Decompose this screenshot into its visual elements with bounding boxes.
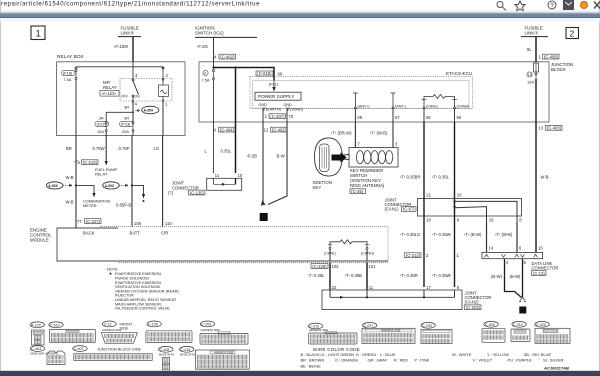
svg-text:RELAY: RELAY [95, 172, 108, 177]
svg-text:POWER SUPPLY: POWER SUPPLY [258, 94, 294, 99]
svg-text:56: 56 [457, 115, 462, 120]
CAN1 internal wire CANH through [454, 199, 456, 223]
svg-text:‹T› 0.35L: ‹T› 0.35L [308, 273, 326, 278]
svg-text:A-30X: A-30X [144, 109, 154, 113]
node: branch split below relay pin 4 [106, 111, 134, 122]
svg-text:BATT: BATT [130, 231, 141, 236]
wire DLC pin 5 to ground [522, 259, 524, 298]
net (CANL) terminal [423, 105, 438, 109]
svg-text:METER: METER [83, 203, 97, 208]
svg-text:C-213: C-213 [309, 325, 319, 329]
svg-text:13: 13 [528, 73, 532, 77]
svg-text:4: 4 [521, 308, 524, 313]
svg-text:C/R: C/R [161, 231, 168, 236]
svg-text:(B-W): (B-W) [510, 274, 522, 279]
svg-text:77: 77 [77, 219, 82, 224]
CAN1 internal wire CANL through [423, 199, 425, 223]
connector pinout C-235 [421, 322, 452, 343]
svg-text:58: 58 [357, 115, 362, 120]
svg-text:MADE WITH: MADE WITH [180, 353, 195, 357]
wire from fuse 13 down through junction block [535, 81, 537, 252]
svg-text:‹T› 0.35R: ‹T› 0.35R [400, 273, 418, 278]
page reference marker 4 [519, 307, 526, 314]
node: FL5 feed joins bus [132, 62, 134, 79]
svg-text:(CANL): (CANL) [426, 105, 438, 109]
key reminder switch label [350, 168, 385, 194]
connector pinout C-105 [146, 321, 192, 343]
svg-text:11: 11 [215, 173, 220, 178]
connector 12 (C-402) [264, 127, 288, 132]
svg-text:‹T› 0.35W: ‹T› 0.35W [432, 232, 451, 237]
svg-text:A-50X: A-50X [105, 184, 115, 188]
svg-text:LINK⑤: LINK⑤ [121, 31, 135, 36]
svg-text:3R: 3R [99, 116, 104, 121]
svg-text:BLOCK: BLOCK [551, 67, 566, 72]
svg-text:JUNCTION BLOCK SIDE: JUNCTION BLOCK SIDE [97, 347, 142, 352]
svg-text:B-W: B-W [277, 153, 285, 158]
svg-text:C-227: C-227 [364, 324, 374, 328]
svg-text:‹T› 0.35BR: ‹T› 0.35BR [400, 175, 420, 180]
svg-text:20: 20 [426, 218, 431, 223]
wire 0.75P below relay box [131, 136, 133, 227]
wire LG below relay box [162, 136, 164, 227]
connector 6 (C-213) on BR wire [74, 160, 98, 165]
ground GND (EARTH) [259, 103, 281, 111]
wire ANT+ to key ring antenna [354, 122, 356, 148]
wire CANL to C-213 [423, 222, 425, 287]
svg-text:OIL FEEDER CONTROL VALVE: OIL FEEDER CONTROL VALVE [115, 307, 170, 311]
svg-text:C-325: C-325 [536, 323, 546, 327]
svg-text:(C-402): (C-402) [272, 127, 287, 132]
svg-text:(C-226): (C-226) [312, 264, 327, 269]
ETACS pin 65 [424, 109, 431, 122]
node junction on 0.75P wire [131, 184, 133, 186]
wire CANH to CAN2 joint connector [366, 262, 368, 290]
svg-text:17: 17 [426, 285, 431, 290]
svg-text:110: 110 [165, 221, 172, 226]
svg-text:60: 60 [278, 72, 283, 77]
connector pinout C-408 [159, 346, 174, 369]
svg-text:O : ORANGE: O : ORANGE [335, 358, 359, 363]
svg-text:(F16): (F16) [63, 71, 73, 76]
connector 4 (C-404) [214, 127, 236, 132]
wire from ignition switch [213, 37, 215, 62]
svg-text:B : BLACK: B : BLACK [301, 352, 320, 357]
svg-text:C-610: C-610 [50, 323, 60, 327]
svg-text:‹T› 0.35L: ‹T› 0.35L [432, 175, 450, 180]
svg-text:15A: 15A [527, 80, 534, 85]
svg-text:HARNESS SIDE: HARNESS SIDE [381, 329, 401, 333]
antenna terminal ANT- [391, 93, 406, 109]
bottom window bar [0, 371, 600, 376]
svg-text:C-404: C-404 [31, 347, 41, 351]
connector pinout C-227 [362, 322, 415, 343]
svg-text:(F23): (F23) [121, 122, 131, 127]
wire 0.75W below relay box [105, 136, 107, 162]
arrow to fuel pump relay [105, 161, 108, 166]
svg-text:MADE WITH: MADE WITH [159, 353, 174, 357]
ECM internal CAN terminating resistor [328, 240, 369, 248]
ETACS-ECU dashed outline [250, 77, 473, 109]
branch wire to combination meter [76, 185, 96, 197]
wire CANL to CAN2 joint connector [329, 262, 331, 290]
connector oval A-30X [135, 106, 159, 114]
relay box outline [57, 54, 186, 136]
svg-text:‹F›2B: ‹F›2B [247, 153, 258, 158]
svg-text:‹T› (B-W): ‹T› (B-W) [464, 232, 482, 237]
svg-text:102: 102 [332, 264, 340, 269]
sheet number box 2 [566, 28, 579, 39]
svg-text:13: 13 [539, 126, 544, 131]
ETACS pin 56 [455, 109, 462, 122]
connector pinout A-12X [30, 322, 44, 345]
svg-text:(C-13): (C-13) [533, 271, 545, 276]
svg-text:(7): (7) [168, 190, 174, 195]
connector 4 (C-402) [214, 54, 236, 59]
svg-text:(C-67): (C-67) [403, 207, 415, 212]
svg-text:(ANT+): (ANT+) [358, 105, 370, 109]
svg-text:(C-213): (C-213) [83, 160, 98, 165]
svg-text:2: 2 [570, 29, 575, 39]
svg-text:‹T› (W-B): ‹T› (W-B) [370, 131, 388, 136]
svg-text:C-235: C-235 [422, 324, 432, 328]
svg-text:‹T› 0.35LG: ‹T› 0.35LG [400, 232, 420, 237]
MFI relay U1 dashed body [120, 79, 172, 102]
svg-text:8L: 8L [527, 47, 532, 52]
svg-text:(CANH): (CANH) [457, 105, 470, 109]
wire BR below relay box [75, 136, 77, 228]
svg-text:BACK: BACK [83, 231, 95, 236]
fusible link 1 label [521, 26, 548, 37]
connector oval junction to combination meter [46, 182, 72, 189]
wire from F22 to relay box edge [105, 132, 107, 136]
node: branch to joint connector pin 10 [234, 66, 236, 68]
wire from F16 down (BR) inside relay box [75, 80, 77, 136]
svg-text:C-310: C-310 [513, 323, 523, 327]
MFI relay label [100, 80, 119, 96]
svg-text:7.5A: 7.5A [202, 78, 210, 83]
joint connector (CAN1) body [418, 199, 522, 217]
svg-text:15A: 15A [97, 129, 104, 134]
svg-text:106: 106 [134, 221, 142, 226]
svg-text:‹T› 0.35W: ‹T› 0.35W [432, 273, 451, 278]
connector pinout C-416 junction block table [180, 346, 250, 369]
connector pinout C-404 [30, 346, 65, 365]
key reminder switch (ignition key ring antenna) coil [349, 148, 398, 168]
joint connector (7) body [207, 178, 242, 190]
ignition switch (IG1) label [195, 26, 257, 38]
data link connector body [482, 252, 543, 258]
svg-text:65: 65 [426, 115, 431, 120]
junction block outline [199, 62, 549, 122]
wire CANL down from ETACS pin 65 [423, 122, 425, 199]
svg-text:BR: BR [66, 146, 72, 151]
net (CANH) terminal [454, 105, 470, 109]
svg-text:10: 10 [457, 192, 462, 197]
relay contact switch [132, 79, 139, 101]
browser toolbar icons [497, 0, 600, 11]
svg-text:(C-407): (C-407) [270, 114, 285, 119]
node: IG1 branch to ETACS [212, 66, 214, 68]
svg-text:GND: GND [284, 103, 293, 107]
heavy wire IG1 branch to ETACS pin 60 [214, 68, 275, 81]
svg-text:HARNESS SIDE: HARNESS SIDE [214, 350, 234, 354]
svg-text:(C-203): (C-203) [466, 305, 481, 310]
svg-text:ACJ00217AB: ACJ00217AB [543, 365, 569, 370]
wire coil feed pin2 [162, 67, 164, 85]
junction block side pin strip [74, 354, 152, 361]
CAN1 internal bus to pin 19 [453, 206, 486, 223]
svg-text:OFF: OFF [121, 95, 128, 99]
svg-text:22: 22 [332, 285, 337, 290]
ETACS pin 58 [355, 109, 362, 122]
sheet number box 1 [31, 26, 45, 40]
wire DLC pin 4 to ground [505, 259, 522, 298]
wire coil pin 1 down (LG) [162, 102, 164, 136]
connector pinout C-305 [482, 321, 505, 342]
ECM net (CANL) [324, 247, 336, 261]
svg-text:3R: 3R [124, 116, 129, 121]
engine control module box [57, 226, 388, 262]
connector pinout C-213 [308, 323, 357, 344]
svg-text:CONNECTOR: CONNECTOR [532, 265, 559, 270]
connector pinout C-325 [535, 321, 570, 343]
connector 1 (C-408) [539, 54, 560, 59]
svg-text:17: 17 [261, 216, 267, 221]
svg-text:BR : BROWN: BR : BROWN [301, 358, 325, 363]
browser url text [1, 1, 260, 8]
svg-text:10: 10 [238, 173, 243, 178]
svg-text:(CAN1): (CAN1) [385, 207, 400, 212]
joint connector (CAN2) body [322, 290, 462, 310]
svg-text:BE : BEIGE: BE : BEIGE [301, 363, 322, 368]
svg-text:C-305: C-305 [485, 323, 495, 327]
svg-text:20A: 20A [122, 129, 129, 134]
svg-text:ON: ON [135, 95, 141, 99]
fuse (13) 15A in junction block [527, 63, 539, 85]
svg-text:57: 57 [395, 115, 400, 120]
svg-text:(SGND): (SGND) [290, 108, 303, 112]
note text block [107, 267, 179, 311]
ignition key symbol [315, 138, 350, 176]
svg-text:C-13: C-13 [104, 323, 112, 327]
svg-text:LG: LG [154, 146, 160, 151]
svg-text:(C-404): (C-404) [220, 127, 235, 132]
joint connector (7) label [168, 180, 205, 195]
svg-text:repair/article/61540/component: repair/article/61540/component/612/type/… [1, 1, 260, 8]
svg-text:1: 1 [36, 29, 41, 40]
svg-text:0.85P-B: 0.85P-B [116, 202, 131, 207]
connector pinout C-13 front side [101, 321, 137, 343]
svg-text:C-408: C-408 [160, 348, 170, 352]
svg-text:14: 14 [489, 245, 494, 250]
svg-text:SB : SKY BLUE: SB : SKY BLUE [524, 352, 552, 357]
node: grounds merge with arrow [261, 200, 264, 206]
connector pinout C-610 [49, 322, 96, 343]
connector oval junction on 0.75P wire [103, 182, 129, 189]
svg-text:70: 70 [289, 114, 294, 119]
antenna terminal ANT+ [353, 93, 369, 109]
heavy wire branch down to joint connector (7) pin 10 [235, 68, 237, 174]
junction block label [551, 62, 573, 72]
svg-text:0.35L: 0.35L [221, 148, 232, 153]
svg-text:7.5A: 7.5A [64, 77, 72, 82]
svg-text:W-B: W-B [66, 175, 74, 180]
svg-text:SI : SILVER: SI : SILVER [543, 358, 564, 363]
ETACS pin 2 (C-407) [263, 109, 286, 122]
wire CAN1 pin 8 to DLC pin 6 [516, 222, 518, 252]
svg-text:G : GREEN: G : GREEN [356, 352, 376, 357]
fuel pump relay label [95, 167, 118, 177]
svg-text:11: 11 [369, 285, 374, 290]
data link connector label [532, 261, 559, 276]
net (IG1) inside ETACS [269, 81, 279, 92]
wire below pin 4 [132, 101, 134, 122]
svg-text:GND: GND [259, 103, 268, 107]
pin 77 (C-227) into ECM [77, 219, 101, 224]
fuse (9) 7.5A in junction block [202, 62, 215, 83]
svg-text:W : WHITE: W : WHITE [452, 352, 472, 357]
wire CANH to C-213 [454, 222, 456, 287]
svg-text:R : RED: R : RED [394, 358, 408, 363]
svg-text:0.75W: 0.75W [93, 146, 105, 151]
svg-text:W-B: W-B [66, 199, 74, 204]
svg-text:MODULE: MODULE [30, 238, 49, 243]
svg-text:Y : YELLOW: Y : YELLOW [487, 352, 509, 357]
connector (C-618) pin 60 [256, 71, 283, 77]
svg-text:‹F›2G: ‹F›2G [197, 44, 208, 49]
svg-text:HARNESS SIDE: HARNESS SIDE [309, 328, 329, 332]
fuse F23 20A [120, 121, 135, 134]
wire CANH down from ETACS pin 56 [454, 122, 456, 199]
svg-text:RELAY BOX: RELAY BOX [57, 54, 85, 60]
connector (C-226) pins 102 101 [311, 264, 376, 269]
ground symbol [519, 298, 526, 302]
svg-text:LG : LIGHT GREEN: LG : LIGHT GREEN [320, 352, 355, 357]
svg-text:(C-213): (C-213) [406, 253, 421, 258]
ground GND (SGND) [284, 103, 304, 111]
svg-text:A-12X: A-12X [31, 323, 42, 327]
svg-text:‹T› 0.35B: ‹T› 0.35B [345, 273, 363, 278]
svg-text:C-105: C-105 [148, 323, 158, 327]
fusible link 5 label [118, 26, 141, 37]
svg-text:0.75P: 0.75P [119, 146, 130, 151]
svg-text:P : PINK: P : PINK [415, 358, 430, 363]
svg-text:A-50X: A-50X [48, 184, 58, 188]
node junction on BR/W-B wire [75, 184, 77, 186]
svg-text:(C-227): (C-227) [86, 219, 101, 224]
connector pinout C-310 [511, 321, 530, 341]
svg-text:(EARTH): (EARTH) [266, 108, 281, 112]
svg-text:LINK①: LINK① [525, 31, 539, 36]
joint connector (CAN1) label [385, 198, 417, 212]
svg-text:(B-W): (B-W) [491, 274, 503, 279]
fuse F16 7.5A [62, 70, 78, 82]
svg-text:12: 12 [264, 127, 269, 132]
svg-text:(C-403): (C-403) [547, 126, 562, 131]
wire from F23 to relay box edge [132, 132, 134, 136]
combination meter label [83, 198, 110, 208]
engine control module label [30, 228, 52, 243]
svg-text:PU : PURPLE: PU : PURPLE [508, 358, 533, 363]
power supply block [255, 92, 301, 100]
svg-text:9: 9 [204, 72, 206, 76]
svg-text:GR : GRAY: GR : GRAY [368, 358, 388, 363]
wire color code legend [301, 347, 564, 368]
connector pinout C-407 oval [73, 346, 87, 352]
svg-text:(CAN2): (CAN2) [465, 300, 480, 305]
wire IG1 feed down through junction block [213, 80, 215, 173]
svg-text:HARNESS SIDE: HARNESS SIDE [102, 328, 122, 332]
CAN terminating resistor inside ETACS [422, 95, 457, 108]
joint connector (CAN2) label [465, 290, 492, 310]
svg-text:21: 21 [426, 192, 431, 197]
svg-text:SWITCH (IG1): SWITCH (IG1) [195, 31, 224, 36]
svg-text:‹T› (BR-W): ‹T› (BR-W) [331, 131, 352, 136]
svg-text:KEY: KEY [313, 185, 322, 190]
ETACS pin 70 [287, 109, 294, 122]
ECM net (CANH) [361, 247, 374, 261]
branch wire to note devices [132, 185, 145, 202]
svg-text:‹T› (W-B): ‹T› (W-B) [495, 232, 513, 237]
wire GND sgnd below ETACS [268, 122, 287, 205]
connector 13 (C-403) [539, 125, 563, 130]
svg-text:101: 101 [369, 264, 377, 269]
ETACS-ECU inner board outline [253, 81, 470, 109]
svg-text:C-205: C-205 [201, 323, 211, 327]
svg-text:3R: 3R [124, 105, 129, 110]
svg-text:‹F›15W: ‹F›15W [114, 44, 128, 49]
ignition key label [313, 180, 333, 190]
svg-text:(C-408): (C-408) [544, 54, 559, 59]
page reference marker 17 [260, 213, 268, 221]
svg-text:L : BLUE: L : BLUE [380, 352, 396, 357]
blue title bar [0, 13, 600, 19]
svg-text:19: 19 [489, 218, 494, 223]
connector pinout C-205 [200, 321, 248, 344]
svg-text:HARNESS SIDE: HARNESS SIDE [201, 328, 221, 332]
toolbar divider [0, 10, 600, 12]
svg-text:V : VIOLET: V : VIOLET [473, 358, 493, 363]
svg-text:ETACS-ECU: ETACS-ECU [446, 71, 472, 76]
svg-text:C-416: C-416 [181, 348, 191, 352]
svg-text:(ANT-): (ANT-) [395, 105, 406, 109]
svg-text:W-B: W-B [541, 175, 549, 180]
connector (C-213) pins 2 and 1 [405, 253, 460, 258]
svg-text:RELAY: RELAY [103, 85, 117, 90]
svg-text:(C-402): (C-402) [220, 54, 235, 59]
svg-text:NOTE: NOTE [107, 267, 118, 272]
wire GND earth below ETACS [262, 122, 264, 200]
svg-text:RING ANTENNA): RING ANTENNA) [350, 183, 385, 188]
wire ANT- to key ring antenna [392, 122, 394, 148]
relay coil [159, 85, 169, 101]
svg-text:(C-618): (C-618) [257, 71, 272, 76]
wire from fusible link 5 to relay box [132, 37, 134, 62]
CAN1 internal bus to pin 8 [453, 200, 517, 222]
wire CAN1 pin 19 to DLC pin 14 [486, 222, 488, 252]
svg-text:(C-35): (C-35) [351, 189, 363, 194]
relay box top bus wire [75, 67, 164, 69]
svg-text:C-407: C-407 [74, 347, 84, 351]
fuse F22 15A [95, 121, 109, 134]
wire from fusible link 1 [535, 37, 537, 62]
svg-text:16: 16 [538, 245, 543, 250]
svg-text:(C-135): (C-135) [190, 190, 205, 195]
ETACS pin 57 [393, 109, 400, 122]
svg-text:‹A-12X›: ‹A-12X› [102, 91, 117, 96]
